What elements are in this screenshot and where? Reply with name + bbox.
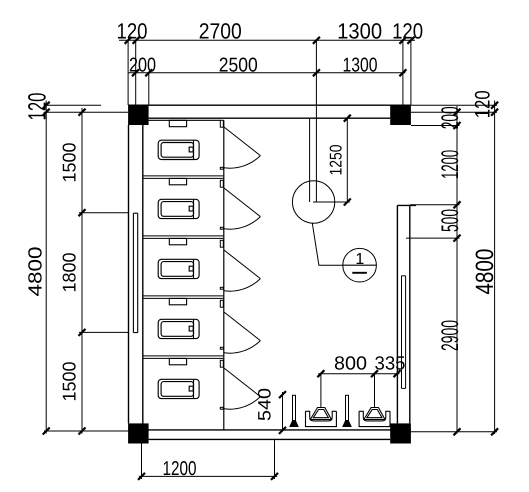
left inner dim line <box>81 108 83 434</box>
cistern stall 2 <box>169 178 186 184</box>
right inner tick y=125.5 <box>454 122 461 129</box>
svg-text:1500: 1500 <box>59 143 80 183</box>
left duct top cap <box>133 212 137 214</box>
bottom tick right <box>271 473 278 480</box>
stall door 1 with swing arc <box>220 120 260 169</box>
bottom ext x=141.5 <box>141 444 143 480</box>
stall front line <box>223 120 225 430</box>
right ext y=112.2 <box>411 111 497 113</box>
svg-text:1500: 1500 <box>59 362 80 402</box>
stall 1 top line <box>143 119 221 121</box>
svg-text:2500: 2500 <box>219 54 258 76</box>
detail bubble diameter line <box>343 264 377 266</box>
stall door 3 with swing arc <box>220 240 260 291</box>
left outer tick y=105.2 <box>43 102 50 109</box>
svg-text:120: 120 <box>24 93 52 121</box>
dim row 1 tick x=136.1 <box>133 37 140 44</box>
dim 800-335 tick x=320.9 <box>317 370 324 377</box>
right outer dim line <box>494 101 496 435</box>
stall partition 4 upper line <box>143 355 224 357</box>
left outer tick y=112.2 <box>43 109 50 116</box>
floor drain circle <box>292 181 334 223</box>
left wall outer face <box>128 125 130 423</box>
left wall pipe duct line 2 <box>137 213 139 332</box>
left ext y=332.4 <box>79 331 129 333</box>
bottom ext x=274.5 <box>274 439 276 479</box>
right wall duct line 1 <box>401 276 403 389</box>
stall partition 3 lower line <box>143 297 224 299</box>
stall partition 1 upper line <box>143 175 224 177</box>
dim 800-335 tick x=397.0 <box>394 370 401 377</box>
stall partition 1 lower line <box>143 177 224 179</box>
squat pan stall 3 <box>158 259 199 278</box>
right wall stub room face <box>396 205 398 423</box>
dim row 1 line <box>119 39 415 41</box>
right ext y=105.2 <box>411 104 497 106</box>
svg-text:1200: 1200 <box>163 458 197 480</box>
right wall stub outer face <box>409 205 411 423</box>
stall partition 4 lower line <box>143 357 224 359</box>
detail bubble underline <box>352 272 367 274</box>
column bottom-right <box>390 423 411 443</box>
extension line x=135.7 <box>135 40 137 105</box>
detail bubble circle <box>343 248 377 282</box>
right outer tick y=112.2 <box>491 109 498 116</box>
left wall pipe duct line 1 <box>132 213 134 332</box>
dim row 2 line <box>128 72 405 74</box>
svg-text:120: 120 <box>392 19 423 44</box>
dim row 1 tick x=410.9 <box>407 37 414 44</box>
extension line x=410.9 <box>410 40 412 105</box>
drain center extension line <box>313 201 350 203</box>
right ext y=238.1 <box>406 237 460 239</box>
svg-text:800: 800 <box>334 353 367 374</box>
left ext y=112.2 <box>44 111 128 113</box>
svg-text:2900: 2900 <box>437 320 464 351</box>
right inner tick y=112.2 <box>454 109 461 116</box>
squat pan stall 2 <box>158 199 199 218</box>
top wall outer face <box>128 104 411 106</box>
urinal 1 <box>306 408 337 427</box>
leader to detail bubble <box>312 223 343 266</box>
left inner tick y=112.2 <box>79 109 86 116</box>
svg-text:4800: 4800 <box>471 249 499 295</box>
ext x=374.5 to urinal <box>374 374 376 407</box>
extension line x=128.1 <box>127 40 129 105</box>
extension line x=402.9 <box>402 40 404 105</box>
stall door 5 with swing arc <box>220 360 260 409</box>
right duct bottom cap <box>402 387 406 389</box>
svg-text:1300: 1300 <box>337 19 382 44</box>
right wall duct line 2 <box>405 276 407 389</box>
cistern stall 1 <box>169 120 186 126</box>
stall partition 3 upper line <box>143 295 224 297</box>
column top-left <box>128 105 149 125</box>
stall door 4 with swing arc <box>220 300 260 353</box>
urinal divider post 1 <box>290 395 298 426</box>
svg-text:120: 120 <box>472 90 495 118</box>
svg-text:120: 120 <box>117 19 148 44</box>
bottom wall outer face <box>149 438 391 440</box>
cistern stall 4 <box>169 298 186 304</box>
left inner tick y=332.4 <box>79 329 86 336</box>
svg-text:1300: 1300 <box>343 54 378 76</box>
stall door 2 with swing arc <box>220 180 260 229</box>
cistern stall 5 <box>169 358 186 364</box>
right ext y=204.8 <box>410 204 460 206</box>
svg-text:1200: 1200 <box>437 150 464 179</box>
svg-text:335: 335 <box>375 353 406 374</box>
dim 800-335 tick x=374.5 <box>371 370 378 377</box>
left ext y=105.2 <box>44 104 101 106</box>
cistern stall 3 <box>169 238 186 244</box>
bottom tick left <box>138 473 145 480</box>
left ext y=431.0 <box>44 430 143 432</box>
urinal 2 <box>359 408 390 427</box>
right outer tick y=431.8 <box>491 428 498 435</box>
dim line 540 <box>282 392 284 430</box>
ext x=320.9 to urinal <box>320 374 322 407</box>
urinal divider post 2 <box>343 395 351 426</box>
dim 1250 tick bottom <box>344 199 351 206</box>
dim row 1 tick x=128.1 <box>125 37 132 44</box>
svg-text:200: 200 <box>129 54 156 76</box>
svg-text:200: 200 <box>437 106 464 129</box>
right inner tick y=431.8 <box>454 428 461 435</box>
column top-right <box>390 105 411 125</box>
right wall stub top cap <box>397 204 416 206</box>
pipe line left <box>309 118 311 202</box>
right inner dim line <box>456 106 458 434</box>
dim row 2 tick x=148.8 <box>145 69 152 76</box>
dim row 2 tick x=402.9 <box>399 69 406 76</box>
svg-text:1: 1 <box>355 251 364 268</box>
pipe / extension line x=316 <box>315 40 317 202</box>
squat pan stall 5 <box>158 379 199 398</box>
dim row 2 tick x=316.4 <box>313 69 320 76</box>
svg-text:1800: 1800 <box>59 253 80 293</box>
dim line 800-335 <box>318 373 399 375</box>
right duct top cap <box>402 275 406 277</box>
bottom wall inner face <box>143 429 411 431</box>
bottom dim line 1200 <box>139 475 277 477</box>
right ext y=125.5 <box>411 125 460 127</box>
svg-text:540: 540 <box>255 388 275 421</box>
dim row 1 tick x=316.4 <box>313 37 320 44</box>
svg-text:500: 500 <box>437 209 464 232</box>
dim 1250 line <box>346 118 348 202</box>
dim row 1 tick x=402.9 <box>399 37 406 44</box>
dim 540 tick top <box>279 391 286 398</box>
right ext y=431.8 <box>408 431 497 433</box>
squat pan stall 4 <box>158 319 199 338</box>
left wall inner face <box>142 120 144 430</box>
dim 540 tick bottom <box>279 427 286 434</box>
right inner tick y=238.1 <box>454 235 461 242</box>
left outer tick y=431.0 <box>43 428 50 435</box>
right outer tick y=105.2 <box>491 102 498 109</box>
left duct bottom cap <box>133 332 137 334</box>
stall partition 2 upper line <box>143 235 224 237</box>
svg-text:4800: 4800 <box>26 247 47 297</box>
stall partition 2 lower line <box>143 237 224 239</box>
top wall inner face <box>149 117 391 119</box>
column bottom-left <box>128 423 149 443</box>
extension line x=148.8 <box>148 73 150 105</box>
left ext y=212.7 <box>79 212 129 214</box>
svg-text:2700: 2700 <box>199 19 242 44</box>
left outer dim line <box>45 101 47 434</box>
dim row 2 tick x=135.5 <box>132 69 139 76</box>
left inner tick y=431.0 <box>79 428 86 435</box>
squat pan stall 1 <box>158 140 199 159</box>
right inner tick y=204.8 <box>454 201 461 208</box>
left inner tick y=212.7 <box>79 209 86 216</box>
dim 1250 tick top <box>344 115 351 122</box>
svg-text:1250: 1250 <box>327 145 346 176</box>
